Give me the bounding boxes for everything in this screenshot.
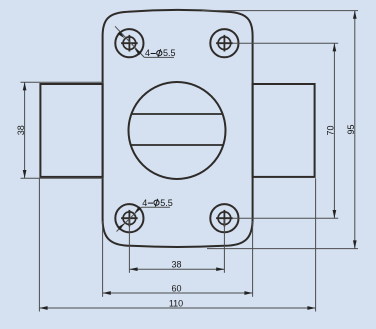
screw hole bottom-right [210,204,238,232]
keyway chord upper [131,113,222,115]
svg-text:4: 4 [142,198,147,208]
right cylinder body [253,84,315,177]
dimension 38 bottom horizontal [129,219,224,273]
svg-text:110: 110 [169,299,183,309]
dimension 110 bottom horizontal [39,178,315,311]
screw hole top-right [210,29,238,57]
svg-text:95: 95 [346,124,356,134]
svg-text:60: 60 [171,284,181,294]
svg-text:70: 70 [326,125,336,135]
svg-text:5.5: 5.5 [160,198,173,208]
screw hole top-left [115,29,143,57]
screw hole bottom-left [115,204,143,232]
dimension 95 right vertical [202,11,358,249]
dimension 38 left vertical [16,82,103,178]
svg-text:38: 38 [171,260,181,270]
lock faceplate outline [103,10,253,247]
leader label 4-phi5.5 bottom hole [117,198,173,232]
keyway chord lower [131,144,224,146]
svg-text:5.5: 5.5 [163,48,176,58]
central cylinder circle [129,82,226,179]
dimension 70 right vertical [232,43,338,218]
dimension 60 bottom horizontal [103,221,253,297]
svg-text:38: 38 [16,125,26,135]
svg-text:4: 4 [145,48,150,58]
leader label 4-phi5.5 top hole [115,26,176,58]
left cylinder body [40,84,102,177]
